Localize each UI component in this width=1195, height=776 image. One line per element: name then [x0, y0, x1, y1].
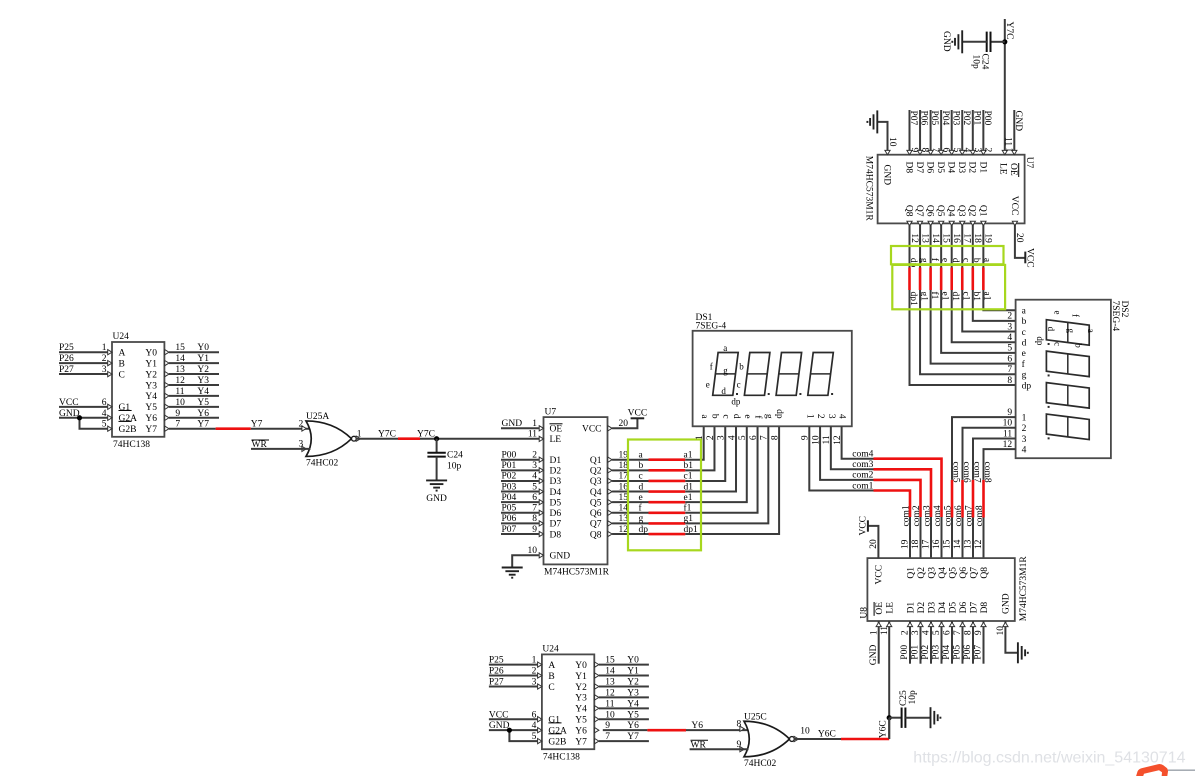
DS2 digit glyph 3	[1046, 383, 1089, 409]
svg-text:d: d	[1046, 327, 1056, 332]
red jumper dp to dp1	[649, 533, 686, 536]
U7 OE pin 1 with GND net	[501, 427, 539, 429]
wire net Y6 to U25C input	[686, 729, 749, 731]
svg-text:GND: GND	[59, 409, 80, 419]
svg-text:M74HC573M1R: M74HC573M1R	[863, 156, 873, 222]
svg-text:12: 12	[909, 233, 919, 243]
svg-text:10p: 10p	[447, 462, 462, 472]
svg-text:C: C	[548, 683, 554, 693]
ground below U7 pin 10	[502, 567, 523, 569]
U7 D4 pin 5 wire P03	[501, 491, 539, 493]
svg-text:Q1: Q1	[977, 205, 987, 217]
U7 D5 pin 6 wire P04	[501, 501, 539, 503]
svg-text:com5: com5	[944, 505, 954, 526]
svg-text:Q7: Q7	[914, 205, 924, 217]
svg-text:OE: OE	[875, 602, 885, 615]
svg-text:10p: 10p	[970, 55, 980, 70]
svg-text:Q1: Q1	[906, 567, 916, 579]
svg-text:G2A: G2A	[119, 414, 138, 424]
svg-text:Q3: Q3	[590, 477, 602, 487]
ground symbol left (rotated)	[876, 110, 878, 133]
wire com8 down to U8	[983, 518, 985, 559]
svg-text:U7: U7	[545, 408, 557, 418]
U8 D8 pin 9 wire P07	[983, 621, 985, 664]
svg-text:Y1: Y1	[627, 667, 639, 677]
svg-text:G2A: G2A	[548, 726, 567, 736]
svg-text:U7: U7	[1024, 157, 1034, 169]
red jumper c top	[961, 268, 964, 291]
svg-text:7SEG-4: 7SEG-4	[696, 322, 727, 332]
svg-text:16: 16	[619, 482, 629, 492]
svg-text:Y2: Y2	[627, 677, 639, 687]
svg-text:D1: D1	[550, 456, 562, 466]
svg-text:e: e	[742, 414, 752, 418]
red jumper dp top	[908, 268, 911, 291]
display DS2 7SEG-4 body (rotated)	[1016, 300, 1111, 459]
svg-text:10: 10	[887, 137, 897, 147]
DS2 digit glyph 1	[1046, 320, 1089, 346]
svg-text:7SEG-4: 7SEG-4	[1110, 301, 1120, 332]
red jumper a to a1	[649, 458, 686, 461]
svg-text:14: 14	[930, 233, 940, 243]
U24a input wire P25 pin 1	[59, 351, 107, 353]
red wire com6	[961, 480, 964, 518]
svg-text:4: 4	[727, 435, 737, 440]
svg-text:8: 8	[532, 514, 537, 524]
svg-text:d: d	[950, 258, 960, 263]
svg-text:5: 5	[532, 732, 537, 742]
svg-text:74HC02: 74HC02	[306, 459, 338, 469]
svg-text:6: 6	[1007, 354, 1012, 364]
U7 Q1 pin 19 wire net a1	[612, 459, 648, 461]
svg-text:d: d	[1022, 339, 1027, 349]
svg-text:G2B: G2B	[548, 737, 566, 747]
svg-text:Q8: Q8	[590, 530, 602, 540]
svg-text:P03: P03	[932, 645, 942, 660]
svg-text:10: 10	[605, 710, 615, 720]
svg-text:Y4: Y4	[575, 705, 587, 715]
svg-text:Y1: Y1	[145, 359, 157, 369]
svg-text:VCC: VCC	[628, 408, 648, 418]
svg-text:Y7: Y7	[145, 425, 157, 435]
green highlight box lower	[892, 265, 1005, 309]
svg-text:P00: P00	[900, 645, 910, 660]
svg-text:D2: D2	[550, 467, 562, 477]
svg-text:Q5: Q5	[935, 205, 945, 217]
svg-text:U8: U8	[859, 607, 869, 619]
U7top Q5 pin 15 wire net e1	[940, 223, 942, 267]
svg-text:Y3: Y3	[145, 381, 157, 391]
svg-text:VCC: VCC	[875, 565, 885, 585]
svg-text:1: 1	[532, 419, 537, 429]
U7top Q7 pin 13 wire net g1	[919, 223, 921, 267]
svg-text:Y7: Y7	[575, 737, 587, 747]
svg-text:15: 15	[619, 493, 629, 503]
U24b output wire Y6 pin 9	[595, 728, 599, 733]
svg-text:P02: P02	[921, 645, 931, 660]
svg-text:12: 12	[175, 376, 185, 386]
junction Y6C node at C25	[887, 715, 892, 720]
svg-text:74HC138: 74HC138	[543, 753, 580, 763]
svg-text:Y4: Y4	[627, 699, 639, 709]
svg-text:c: c	[737, 379, 741, 389]
wire dp1 to DS2	[910, 290, 1016, 385]
U24a GND wire to G2A pin 4	[59, 417, 107, 419]
wire g1 up to DS1	[685, 426, 768, 523]
U7top D4 pin 5 wire P03	[951, 110, 953, 155]
svg-text:4: 4	[837, 414, 847, 419]
svg-text:D2: D2	[967, 162, 977, 174]
red jumper d to d1	[649, 490, 686, 493]
svg-text:com3: com3	[923, 505, 933, 526]
svg-text:8: 8	[964, 630, 974, 635]
U7top D7 pin 8 wire P06	[919, 110, 921, 155]
svg-text:8: 8	[736, 720, 741, 730]
svg-text:10: 10	[528, 546, 538, 556]
svg-text:18: 18	[619, 461, 629, 471]
svg-text:3: 3	[826, 414, 836, 419]
U7top Q1 pin 19 wire net a1	[982, 223, 984, 267]
DS1 digit glyph 4	[808, 353, 834, 396]
latch U7 top M74HC573M1R body (rotated)	[878, 155, 1025, 224]
svg-text:P04: P04	[942, 645, 952, 660]
svg-text:D8: D8	[550, 530, 562, 540]
svg-text:P06: P06	[963, 645, 973, 660]
U24b output wire Y5 pin 10	[599, 718, 649, 720]
svg-text:Y6: Y6	[145, 414, 157, 424]
wire net Y7C vertical from top	[1004, 19, 1006, 155]
red jumper d top	[950, 268, 953, 291]
svg-text:4: 4	[922, 630, 932, 635]
svg-text:LE: LE	[998, 163, 1008, 175]
svg-text:5: 5	[932, 630, 942, 635]
svg-text:Q4: Q4	[946, 205, 956, 217]
svg-text:P26: P26	[489, 667, 504, 677]
wire com6 down to U8	[962, 518, 964, 559]
svg-text:Y7: Y7	[627, 732, 639, 742]
U7top OE pin 1 with GND net	[1013, 110, 1015, 155]
U7 Q7 pin 13 wire net g1	[612, 522, 648, 524]
svg-text:3: 3	[1022, 435, 1027, 445]
svg-text:13: 13	[964, 539, 974, 549]
VCC symbol above U7	[631, 417, 645, 419]
svg-text:P26: P26	[59, 354, 74, 364]
wire net Y6C red segment	[841, 738, 889, 741]
svg-text:Q5: Q5	[590, 498, 602, 508]
svg-text:OE: OE	[550, 425, 563, 435]
U24a output wire Y3 pin 12	[169, 384, 219, 386]
svg-text:Y6: Y6	[575, 726, 587, 736]
svg-text:e: e	[1053, 311, 1063, 315]
svg-text:com8: com8	[975, 505, 985, 526]
wire Y6C corner up to junction	[888, 718, 890, 739]
svg-text:VCC: VCC	[582, 425, 602, 435]
svg-text:1: 1	[804, 414, 814, 419]
svg-text:VCC: VCC	[489, 710, 509, 720]
red jumper e to e1	[649, 501, 686, 504]
svg-text:Y4: Y4	[145, 392, 157, 402]
DS2 digit pin 10 wire net com6	[963, 428, 1016, 480]
svg-text:LE: LE	[550, 435, 562, 445]
svg-text:a: a	[1086, 329, 1096, 333]
svg-text:4: 4	[102, 409, 107, 419]
svg-text:D6: D6	[550, 509, 562, 519]
svg-text:6: 6	[102, 398, 107, 408]
svg-text:3: 3	[1007, 322, 1012, 332]
svg-text:5: 5	[102, 420, 107, 430]
red jumper g to g1	[649, 522, 686, 525]
wire g1 to DS2	[920, 290, 1016, 374]
svg-text:A: A	[548, 661, 555, 671]
svg-text:4: 4	[532, 721, 537, 731]
U7 D7 pin 8 wire P06	[501, 522, 539, 524]
svg-text:15: 15	[940, 233, 950, 243]
svg-text:12: 12	[605, 688, 615, 698]
DS1 digit pin 12 wire net com4	[842, 426, 874, 458]
svg-text:D6: D6	[925, 162, 935, 174]
svg-text:D3: D3	[956, 162, 966, 174]
svg-text:a: a	[723, 343, 727, 353]
wire WR to U25A pin 3	[251, 448, 311, 450]
red wire com8	[982, 480, 985, 518]
svg-text:13: 13	[605, 677, 615, 687]
svg-text:18: 18	[972, 233, 982, 243]
decoder U24a 74HC138 body	[112, 342, 164, 437]
U24b output wire Y1 pin 14	[599, 675, 649, 677]
svg-text:2: 2	[532, 667, 537, 677]
svg-text:U25A: U25A	[306, 412, 329, 422]
svg-text:Q1: Q1	[590, 456, 602, 466]
svg-text:P02: P02	[502, 472, 517, 482]
ground right of U8 (rotated)	[1017, 642, 1019, 663]
U24b output wire Y7 pin 7	[599, 740, 649, 742]
wire dp1 up to DS1	[685, 426, 779, 534]
svg-text:A: A	[119, 349, 126, 359]
svg-text:GND: GND	[1013, 111, 1023, 132]
U7top LE pin 11	[1002, 150, 1007, 154]
wire c1 to DS2	[962, 290, 1015, 332]
svg-text:DS2: DS2	[1119, 301, 1129, 318]
svg-text:Q5: Q5	[948, 567, 958, 579]
svg-text:com1: com1	[852, 481, 873, 491]
svg-text:P01: P01	[911, 645, 921, 660]
U24a input wire P27 pin 3	[59, 373, 107, 375]
svg-text:11: 11	[605, 699, 614, 709]
U24b junction on GND wire	[507, 728, 512, 733]
svg-text:13: 13	[919, 233, 929, 243]
DS2 digit pin 12 wire net com8	[984, 449, 1016, 480]
red wire com7	[972, 480, 975, 518]
svg-text:Q3: Q3	[927, 567, 937, 579]
svg-text:5: 5	[532, 482, 537, 492]
svg-text:Y5: Y5	[197, 398, 209, 408]
svg-text:GND: GND	[1002, 593, 1012, 614]
wire com4 down to U8	[941, 517, 943, 558]
svg-text:D8: D8	[980, 602, 990, 614]
svg-text:Y1: Y1	[197, 354, 209, 364]
svg-text:3: 3	[532, 677, 537, 687]
svg-text:Y2: Y2	[575, 683, 587, 693]
green highlight box around U7 outputs	[628, 440, 701, 551]
red wire com4	[874, 459, 942, 517]
U7 D2 pin 3 wire P01	[501, 469, 539, 471]
svg-text:4: 4	[532, 472, 537, 482]
wire d1 to DS2	[952, 290, 1016, 342]
junction top Y7C node	[1002, 39, 1007, 44]
U7top Q2 pin 18 wire net b1	[972, 223, 974, 267]
U8 D3 pin 4 wire P02	[930, 621, 932, 664]
svg-text:Q2: Q2	[917, 567, 927, 579]
svg-text:20: 20	[619, 419, 629, 429]
DS2 digit pin 11 wire net com7	[973, 438, 1016, 479]
wire WR to U25C pin 9	[690, 748, 749, 750]
svg-text:P01: P01	[502, 461, 517, 471]
DS1 digit pin 10 wire net com2	[820, 426, 873, 480]
svg-text:Y4: Y4	[197, 387, 209, 397]
svg-text:14: 14	[953, 539, 963, 549]
svg-text:f: f	[710, 362, 713, 372]
svg-text:Q3: Q3	[956, 205, 966, 217]
U8 D7 pin 8 wire P06	[972, 621, 974, 664]
svg-text:17: 17	[922, 539, 932, 549]
svg-text:1: 1	[695, 435, 705, 440]
svg-text:2: 2	[102, 354, 107, 364]
svg-text:2: 2	[815, 414, 825, 419]
U7 Q6 pin 14 wire net f1	[612, 512, 648, 514]
svg-text:D7: D7	[914, 162, 924, 174]
svg-text:dp: dp	[731, 397, 741, 407]
svg-text:dp: dp	[908, 258, 918, 268]
svg-text:8: 8	[1007, 376, 1012, 386]
svg-text:15: 15	[605, 656, 615, 666]
svg-text:16: 16	[951, 233, 961, 243]
svg-text:U24: U24	[113, 332, 130, 342]
wire a1 up to DS1	[685, 426, 703, 459]
svg-text:g: g	[763, 414, 773, 419]
svg-text:GND: GND	[869, 644, 879, 665]
svg-text:7: 7	[953, 630, 963, 635]
wire net Y7 red segment	[216, 427, 251, 430]
DS1 digit glyph 3	[776, 353, 802, 396]
red jumper b to b1	[649, 469, 686, 472]
svg-text:D5: D5	[550, 498, 562, 508]
svg-text:3: 3	[102, 365, 107, 375]
svg-text:9: 9	[532, 525, 537, 535]
U7top GND pin 10 wire	[877, 122, 887, 155]
ground left of C24 top (rotated)	[961, 30, 963, 53]
svg-text:com6: com6	[954, 505, 964, 526]
svg-text:P01: P01	[971, 111, 981, 126]
svg-text:com4: com4	[852, 450, 873, 460]
svg-text:com5: com5	[951, 462, 961, 483]
U24a output wire Y5 pin 10	[169, 406, 219, 408]
svg-text:com2: com2	[852, 471, 873, 481]
svg-text:GND: GND	[550, 552, 571, 562]
svg-text:P07: P07	[974, 645, 984, 660]
svg-text:com8: com8	[982, 462, 992, 483]
U7 Q4 pin 16 wire net d1	[612, 491, 648, 493]
wire e1 up to DS1	[685, 426, 746, 502]
capacitor C25 10p	[889, 717, 901, 719]
U8 GND pin 10	[1005, 621, 1017, 653]
U24a output wire Y0 pin 15	[169, 351, 219, 353]
wire b1 to DS2	[973, 290, 1016, 321]
svg-text:P05: P05	[953, 645, 963, 660]
svg-text:4: 4	[1007, 333, 1012, 343]
svg-text:Q2: Q2	[590, 467, 602, 477]
svg-text:20: 20	[869, 539, 879, 549]
svg-text:7: 7	[532, 504, 537, 514]
svg-text:P05: P05	[502, 504, 517, 514]
svg-text:10: 10	[800, 726, 810, 736]
svg-text:11: 11	[528, 430, 537, 440]
U7 D1 pin 2 wire P00	[501, 459, 539, 461]
U24a VCC wire to G1 pin 6	[59, 406, 107, 408]
svg-text:2: 2	[983, 148, 993, 153]
U24a output wire Y6 pin 9	[169, 417, 219, 419]
svg-text:dp: dp	[774, 409, 784, 419]
svg-text:U25C: U25C	[744, 713, 767, 723]
svg-text:2: 2	[1022, 424, 1027, 434]
U25A output pin 1	[356, 436, 360, 441]
svg-text:2: 2	[298, 419, 303, 429]
svg-text:74HC02: 74HC02	[744, 759, 776, 769]
svg-text:16: 16	[932, 539, 942, 549]
U7top Q6 pin 14 wire net f1	[930, 223, 932, 267]
svg-text:M74HC573M1R: M74HC573M1R	[1019, 556, 1029, 622]
svg-text:WR: WR	[252, 440, 268, 450]
svg-text:1: 1	[532, 656, 537, 666]
U7top Q8 pin 12 wire net dp1	[909, 223, 911, 267]
svg-text:Y6C: Y6C	[818, 730, 836, 740]
svg-text:18: 18	[911, 539, 921, 549]
svg-text:P06: P06	[919, 111, 929, 126]
wire f1 to DS2	[931, 290, 1016, 364]
svg-text:17: 17	[962, 233, 972, 243]
CSDN logo partial (orange)	[1136, 764, 1169, 776]
wire a1 to DS2	[983, 290, 1015, 310]
red jumper f to f1	[649, 511, 686, 514]
U24a output wire Y1 pin 14	[169, 362, 219, 364]
svg-text:Y5: Y5	[627, 710, 639, 720]
svg-text:Y6C: Y6C	[879, 720, 889, 738]
svg-text:P05: P05	[929, 111, 939, 126]
U24b output wire Y4 pin 11	[599, 707, 649, 709]
svg-text:VCC: VCC	[1024, 248, 1034, 268]
U7top Q3 pin 17 wire net c1	[961, 223, 963, 267]
svg-text:com1: com1	[902, 505, 912, 526]
wire net Y7C red segment	[398, 437, 420, 440]
latch U8 M74HC573M1R body (rotated)	[867, 558, 1014, 621]
latch U7 M74HC573M1R body	[544, 417, 608, 564]
svg-text:2: 2	[532, 451, 537, 461]
U7top D5 pin 6 wire P04	[940, 110, 942, 155]
red wire com5	[951, 480, 954, 518]
wire b1 up to DS1	[685, 426, 714, 470]
red jumper e top	[940, 268, 943, 291]
U25A input pin 3	[302, 446, 306, 451]
U8 D4 pin 5 wire P03	[941, 621, 943, 664]
svg-text:WR: WR	[691, 740, 707, 750]
svg-text:19: 19	[983, 233, 993, 243]
wire com5 down to U8	[951, 518, 953, 559]
svg-text:Y5: Y5	[145, 403, 157, 413]
wire net Y6 black segment	[603, 729, 648, 731]
svg-text:12: 12	[974, 539, 984, 549]
svg-text:10: 10	[996, 626, 1006, 636]
svg-text:3: 3	[911, 630, 921, 635]
svg-text:g: g	[639, 514, 644, 524]
